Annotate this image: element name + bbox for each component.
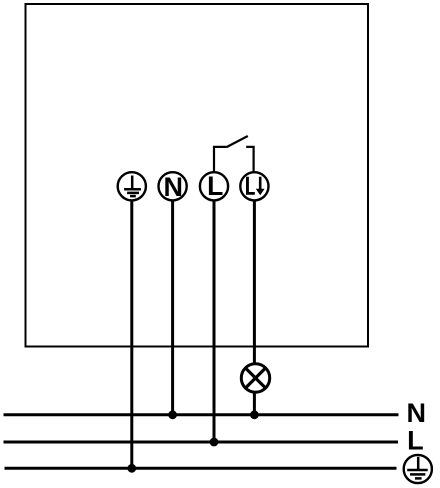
- svg-text:L: L: [407, 425, 424, 455]
- svg-text:N: N: [164, 172, 184, 202]
- svg-text:L: L: [207, 171, 223, 201]
- svg-text:N: N: [407, 398, 427, 428]
